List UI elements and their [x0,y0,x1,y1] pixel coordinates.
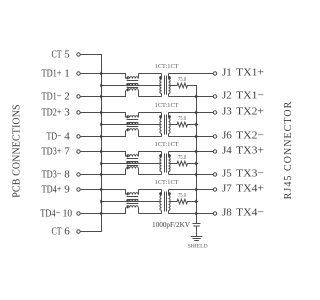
svg-text:5: 5 [64,49,70,61]
ground (shield) [191,236,203,238]
transformer T1 [159,74,171,97]
resistor R4 [176,199,189,204]
svg-text:1CT:1CT: 1CT:1CT [155,179,179,186]
wire choke to transformer bottom [139,136,162,138]
junction CT bus / TD3+ [100,150,103,154]
junction shield bus center tap ch4 [195,200,198,204]
junction shield bus / row J3 [195,111,198,115]
svg-text:75.0: 75.0 [178,154,186,161]
wire TD4&#8722; to choke [80,213,126,215]
wire CT bus (left vertical) [101,55,103,232]
junction CT bus center tap ch4 [100,200,103,204]
common-mode choke L3 [126,152,139,175]
svg-text:TX2−: TX2− [236,130,264,142]
junction CT bus / TD1+ [100,72,103,76]
junction shield bus / row J7 [195,188,198,192]
transformer T3 [159,152,171,175]
wire resistor to shield bus [189,85,198,87]
svg-text:9: 9 [64,184,70,196]
capacitor C1 [193,223,201,225]
terminal CT 5 [77,53,80,56]
svg-text:2: 2 [64,91,70,103]
svg-text:75.0: 75.0 [178,192,186,199]
terminal J1 [213,72,216,75]
terminal J5 [213,173,216,176]
junction CT bus center tap ch1 [100,84,103,88]
terminal CT 6 [77,230,80,233]
wire choke to transformer top [139,112,162,114]
junction CT bus center tap ch3 [100,162,103,166]
wire secondary top to J4 [169,151,214,153]
wire choke to transformer top [139,151,162,153]
wire primary center tap to CT bus [102,85,162,87]
svg-text:8: 8 [64,169,70,181]
wire primary center tap to CT bus [102,163,162,165]
wire TD1&#8722; to choke [80,96,126,98]
junction shield bus / row J6 [195,135,198,139]
junction CT bus / TD2+ [100,111,103,115]
wire choke to transformer top [139,73,162,75]
svg-text:75.0: 75.0 [178,115,186,122]
terminal TD&#8722; [77,135,80,138]
svg-text:PCB CONNECTIONS: PCB CONNECTIONS [12,104,23,197]
svg-text:1: 1 [64,68,70,80]
svg-text:TD−: TD− [47,131,62,143]
svg-text:TX3−: TX3− [236,168,264,180]
svg-text:J1: J1 [222,67,232,79]
terminal J3 [213,111,216,114]
junction CT bus / TD4&#8722; [100,212,103,216]
common-mode choke L2 [126,113,139,137]
terminal TD4&#8722; [77,212,80,215]
wire TD4+ to choke [80,189,126,191]
junction CT bus center tap ch2 [100,123,103,127]
wire choke to transformer bottom [139,213,162,215]
svg-text:TX4−: TX4− [236,207,264,219]
svg-text:CT: CT [52,49,62,61]
svg-text:1000pF/2KV: 1000pF/2KV [152,221,191,229]
wire resistor to shield bus [189,163,198,165]
junction shield bus / row J2 [195,95,198,99]
svg-text:J4: J4 [222,145,232,157]
svg-text:TX4+: TX4+ [236,183,264,195]
svg-text:TD4−: TD4− [40,208,60,220]
wire TD&#8722; to choke [80,136,126,138]
svg-text:SHIELD: SHIELD [188,244,208,250]
junction CT bus / TD4+ [100,188,103,192]
junction shield bus center tap ch3 [195,162,198,166]
terminal TD4+ [77,188,80,191]
wire secondary bottom to J5 [169,174,214,176]
wire choke to transformer bottom [139,96,162,98]
wire secondary center tap to resistor [169,201,177,203]
wire choke to transformer bottom [139,174,162,176]
svg-text:J6: J6 [222,130,232,142]
svg-text:1CT:1CT: 1CT:1CT [155,102,179,109]
wire resistor to shield bus [189,201,198,203]
svg-text:10: 10 [63,208,73,220]
wire secondary top to J7 [169,189,214,191]
terminal TD3&#8722; [77,173,80,176]
svg-text:TX1−: TX1− [236,90,264,102]
svg-text:TD1−: TD1− [42,91,62,103]
junction shield bus / row J8 [195,212,198,216]
transformer T4 [159,190,171,214]
terminal J8 [213,212,216,215]
terminal J2 [213,95,216,98]
wire secondary bottom to J6 [169,136,214,138]
wire secondary top to J3 [169,112,214,114]
svg-text:TD3+: TD3+ [42,146,62,158]
svg-text:TX1+: TX1+ [236,67,264,79]
wire secondary center tap to resistor [169,124,177,126]
svg-text:3: 3 [64,107,70,119]
junction shield bus / row J4 [195,150,198,154]
wire primary center tap to CT bus [102,124,162,126]
svg-text:7: 7 [64,146,70,158]
terminal J6 [213,135,216,138]
svg-text:J8: J8 [222,207,232,219]
terminal TD1+ [77,72,80,75]
junction CT bus / TD1&#8722; [100,95,103,99]
wire CT6 to bus [80,231,102,233]
wire secondary top to J1 [169,73,214,75]
terminal TD2+ [77,111,80,114]
svg-text:TX3+: TX3+ [236,145,264,157]
svg-text:6: 6 [64,226,70,238]
svg-text:TD4+: TD4+ [42,184,62,196]
svg-text:TD2+: TD2+ [42,107,62,119]
wire CT5 to bus [80,54,102,56]
wire primary center tap to CT bus [102,201,162,203]
wire TD1+ to choke [80,73,126,75]
wire shield bus (right vertical) [196,86,198,224]
terminal TD1&#8722; [77,95,80,98]
svg-text:J7: J7 [222,183,232,195]
wire secondary center tap to resistor [169,85,177,87]
wire resistor to shield bus [189,124,198,126]
wire TD3+ to choke [80,151,126,153]
terminal J4 [213,150,216,153]
junction CT bus / TD3&#8722; [100,173,103,177]
wire secondary center tap to resistor [169,163,177,165]
terminal TD3+ [77,150,80,153]
common-mode choke L1 [126,74,139,97]
svg-text:4: 4 [64,131,70,143]
resistor R3 [176,161,189,166]
wire secondary bottom to J8 [169,213,214,215]
junction CT bus / TD&#8722; [100,135,103,139]
resistor R2 [176,122,189,127]
transformer T2 [159,113,171,137]
terminal J7 [213,188,216,191]
svg-text:CT: CT [52,226,62,238]
svg-text:TX2+: TX2+ [236,106,264,118]
svg-text:1CT:1CT: 1CT:1CT [155,141,179,148]
wire choke to transformer top [139,189,162,191]
svg-text:75.0: 75.0 [178,76,186,83]
junction shield bus / row J5 [195,173,198,177]
wire TD3&#8722; to choke [80,174,126,176]
wire secondary bottom to J2 [169,96,214,98]
svg-text:J3: J3 [222,106,232,118]
svg-text:TD3−: TD3− [42,169,62,181]
svg-text:J2: J2 [222,90,232,102]
junction shield bus center tap ch2 [195,123,198,127]
common-mode choke L4 [126,190,139,214]
wire capacitor to shield ground [196,226,198,237]
wire TD2+ to choke [80,112,126,114]
resistor R1 [176,83,189,88]
svg-text:1CT:1CT: 1CT:1CT [155,63,179,70]
svg-text:TD1+: TD1+ [42,68,62,80]
svg-text:RJ45 CONNECTOR: RJ45 CONNECTOR [283,101,294,200]
svg-text:J5: J5 [222,168,232,180]
